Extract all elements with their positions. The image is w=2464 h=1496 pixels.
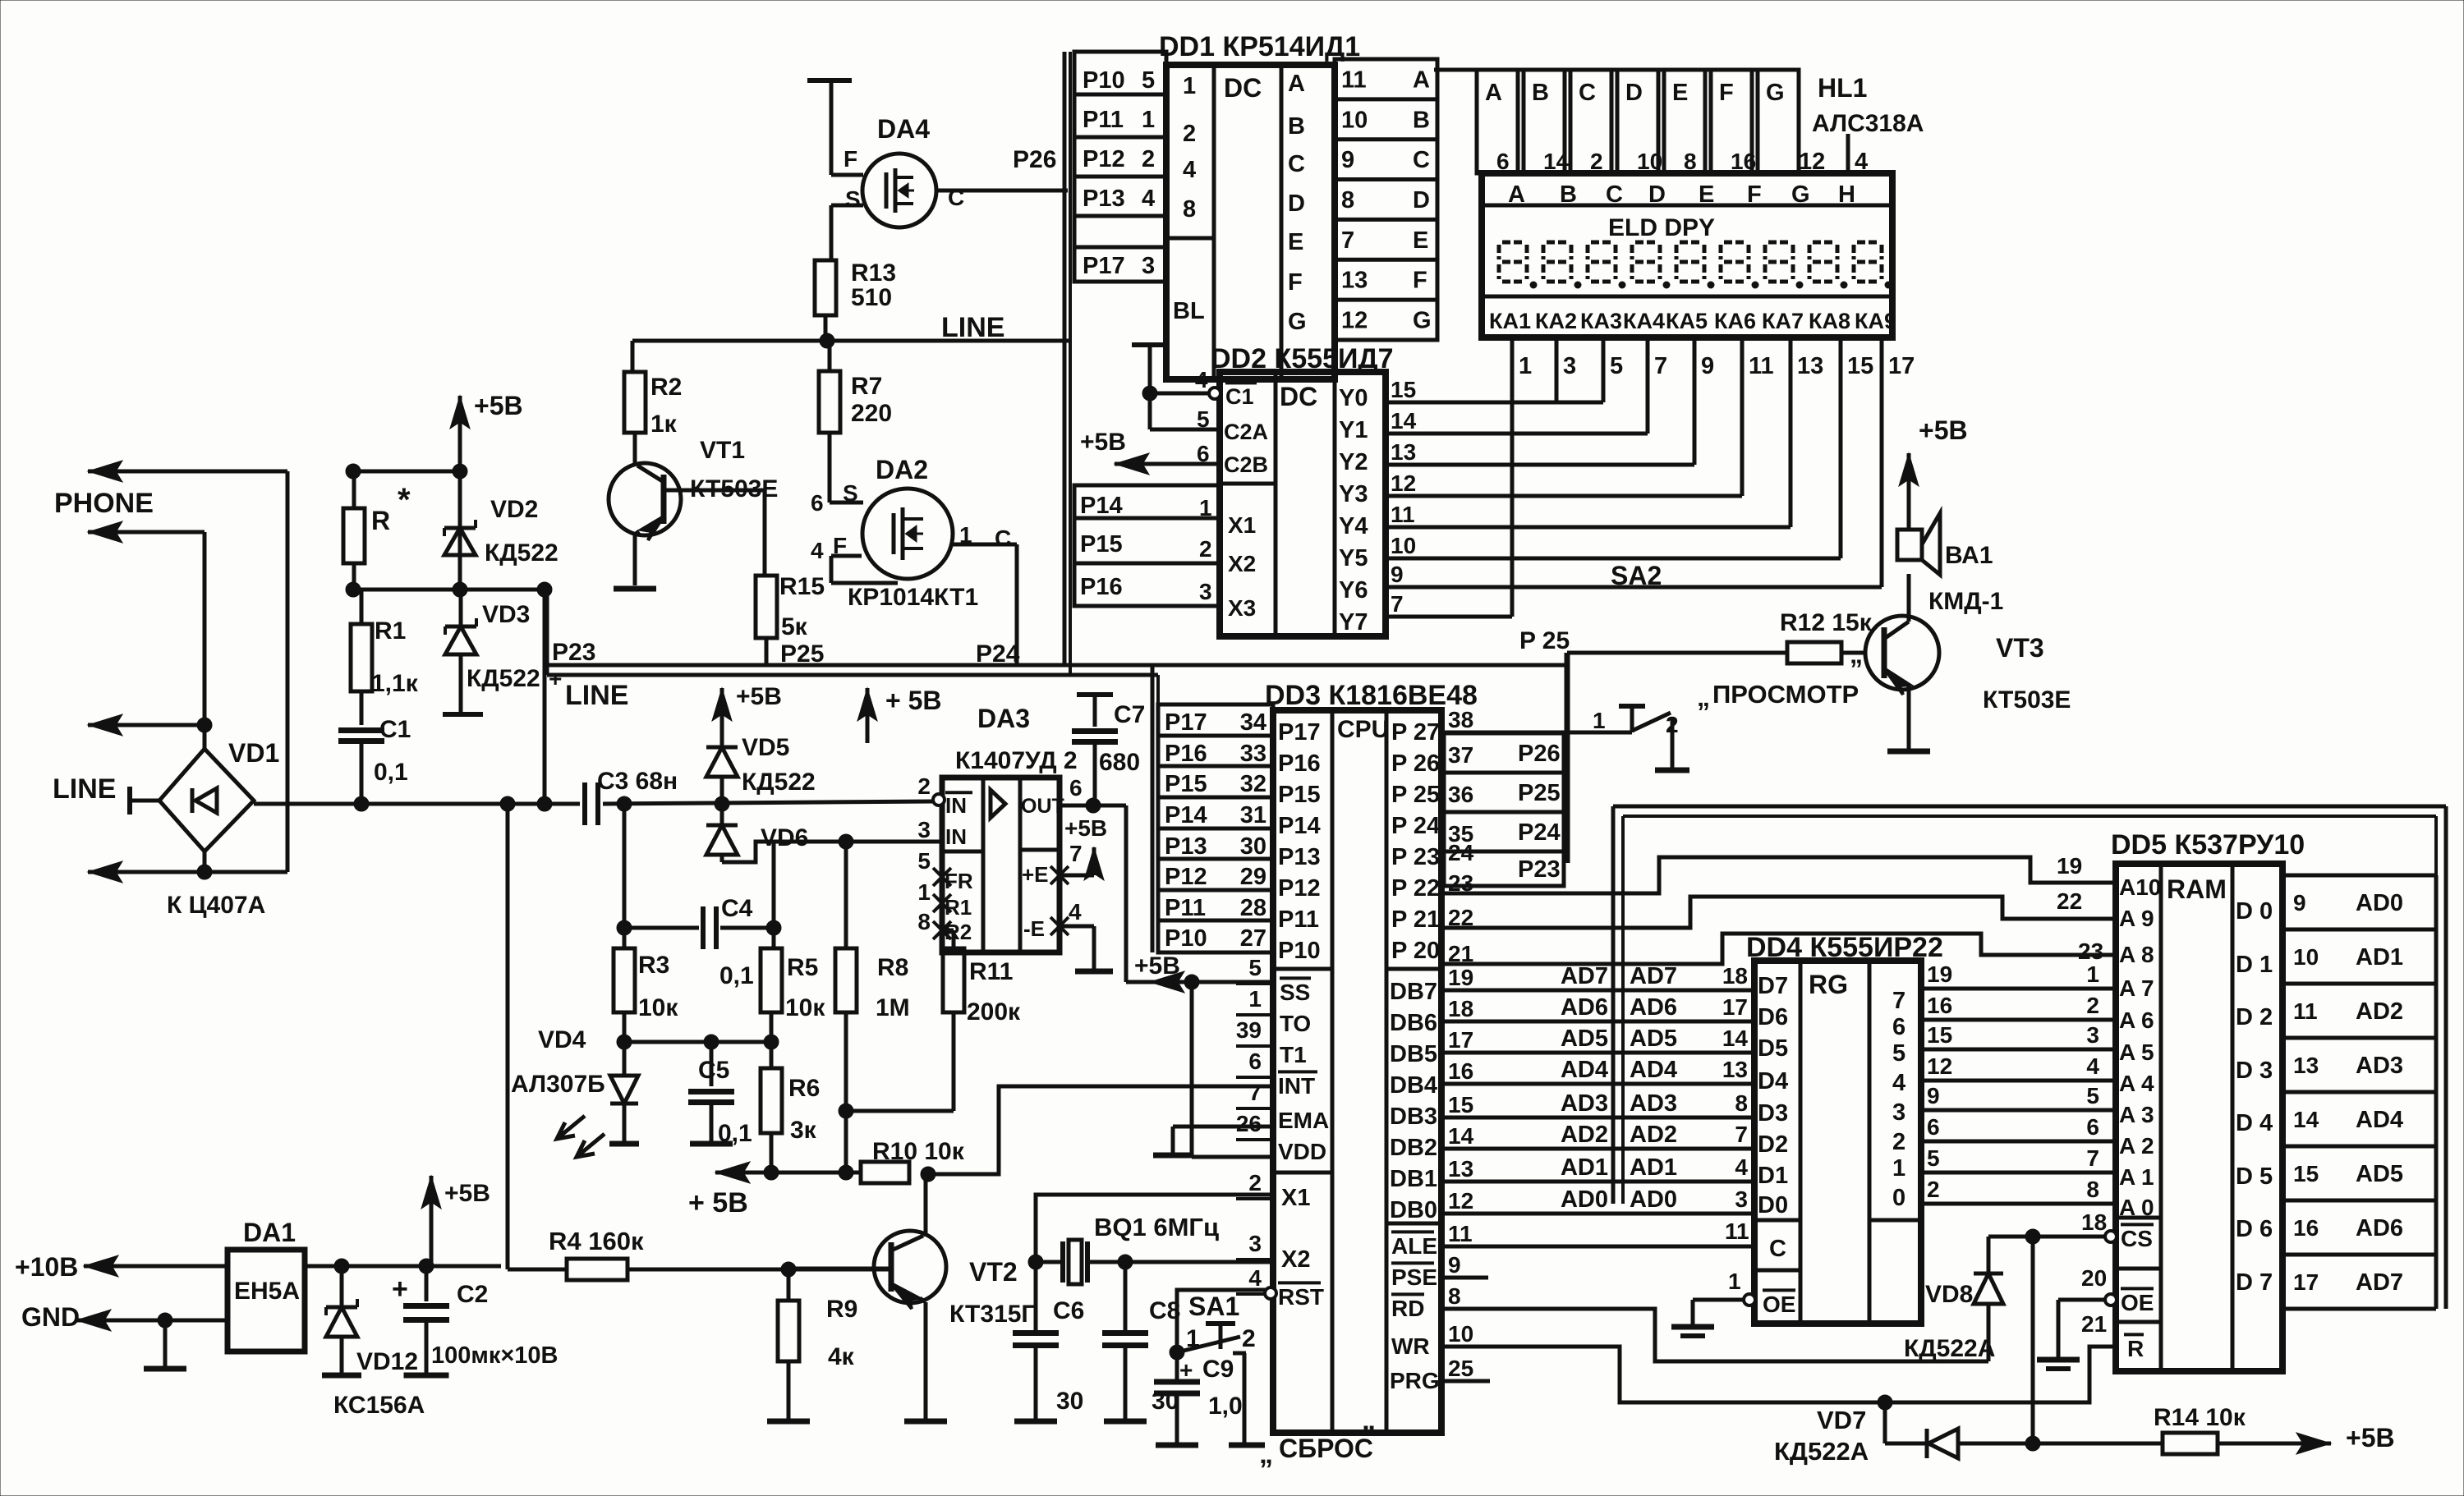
svg-text:+: +	[392, 1273, 408, 1305]
svg-text:1: 1	[1728, 1269, 1741, 1294]
svg-text:D4: D4	[1758, 1068, 1788, 1094]
svg-text:17: 17	[1448, 1027, 1473, 1053]
svg-text:PSE: PSE	[1391, 1264, 1437, 1290]
svg-text:0,1: 0,1	[718, 1120, 752, 1147]
svg-text:ВQ1 6МГц: ВQ1 6МГц	[1094, 1213, 1219, 1241]
svg-text:9: 9	[2293, 890, 2306, 915]
svg-text:1: 1	[917, 879, 931, 905]
svg-text:15: 15	[1448, 1092, 1473, 1117]
svg-text:D7: D7	[1758, 973, 1788, 999]
svg-text:33: 33	[1240, 741, 1266, 767]
svg-text:AD0: AD0	[1630, 1186, 1677, 1213]
svg-text:AD1: AD1	[2356, 944, 2403, 971]
svg-text:AD0: AD0	[1561, 1186, 1608, 1213]
svg-text:9: 9	[1701, 353, 1714, 379]
svg-text:AD5: AD5	[2356, 1161, 2403, 1187]
svg-text:AD6: AD6	[1561, 994, 1608, 1021]
svg-text:19: 19	[1448, 965, 1473, 990]
svg-text:D: D	[1288, 190, 1305, 217]
svg-text:„: „	[1697, 682, 1710, 712]
svg-text:DA2: DA2	[876, 455, 928, 484]
svg-text:AD4: AD4	[1561, 1057, 1608, 1083]
svg-text:AD5: AD5	[1630, 1026, 1677, 1052]
svg-text:A 2: A 2	[2119, 1133, 2154, 1159]
svg-text:H: H	[1838, 181, 1855, 208]
svg-text:10: 10	[2293, 944, 2319, 970]
svg-text:5: 5	[1610, 353, 1623, 379]
svg-text:P15: P15	[1165, 771, 1207, 797]
svg-text:R10 10к: R10 10к	[872, 1138, 965, 1165]
svg-text:3: 3	[1735, 1186, 1748, 1212]
svg-text:13: 13	[1391, 439, 1416, 465]
svg-text:RST: RST	[1278, 1284, 1324, 1310]
svg-text:R6: R6	[788, 1075, 820, 1102]
svg-text:P14: P14	[1080, 493, 1123, 519]
svg-text:КТ315Г: КТ315Г	[949, 1301, 1035, 1328]
svg-text:15: 15	[2293, 1161, 2319, 1186]
svg-text:3: 3	[1892, 1099, 1905, 1126]
svg-text:1: 1	[959, 522, 972, 548]
svg-text:11: 11	[1391, 502, 1415, 527]
svg-text:7: 7	[2086, 1145, 2099, 1171]
svg-text:DB6: DB6	[1390, 1010, 1437, 1036]
svg-text:ALE: ALE	[1391, 1233, 1437, 1259]
svg-text:КА7: КА7	[1762, 309, 1804, 333]
svg-text:КА9: КА9	[1855, 309, 1896, 333]
svg-text:23: 23	[2078, 938, 2103, 964]
svg-text:17: 17	[2293, 1269, 2319, 1295]
svg-text:АЛ307Б: АЛ307Б	[511, 1071, 605, 1098]
svg-text:Y0: Y0	[1339, 385, 1368, 411]
svg-text:P26: P26	[1013, 146, 1056, 173]
svg-text:7: 7	[1391, 591, 1404, 617]
svg-text:4: 4	[2086, 1053, 2099, 1079]
svg-text:4: 4	[1735, 1154, 1748, 1180]
svg-text:P11: P11	[1165, 895, 1206, 921]
svg-text:0: 0	[1892, 1185, 1905, 1211]
svg-text:F: F	[844, 146, 857, 172]
svg-text:17: 17	[1888, 353, 1915, 379]
svg-text:AD2: AD2	[1561, 1122, 1608, 1148]
svg-text:+ 5В: + 5В	[885, 686, 941, 715]
svg-text:+5В: +5В	[1134, 952, 1180, 980]
svg-text:18: 18	[1448, 996, 1473, 1021]
svg-text:SA2: SA2	[1611, 561, 1662, 590]
svg-text:P 25: P 25	[1519, 627, 1570, 654]
svg-text:С4: С4	[721, 895, 753, 922]
svg-text:14: 14	[1448, 1123, 1474, 1149]
svg-text:25: 25	[1448, 1356, 1473, 1381]
svg-text:5: 5	[1197, 406, 1210, 432]
svg-text:8: 8	[1183, 196, 1196, 223]
svg-text:R: R	[371, 506, 390, 535]
svg-text:3: 3	[2086, 1022, 2099, 1048]
svg-text:С6: С6	[1053, 1297, 1084, 1324]
svg-text:DB4: DB4	[1390, 1072, 1437, 1099]
svg-text:D 6: D 6	[2236, 1216, 2273, 1242]
svg-text:КР1014КТ1: КР1014КТ1	[848, 584, 978, 611]
svg-text:A 4: A 4	[2119, 1071, 2154, 1096]
svg-text:HL1: HL1	[1818, 73, 1867, 103]
svg-text:3к: 3к	[790, 1117, 817, 1144]
svg-text:15: 15	[1927, 1022, 1952, 1048]
svg-text:4: 4	[1248, 1265, 1262, 1291]
svg-text:E: E	[1413, 227, 1428, 254]
svg-text:К Ц407А: К Ц407А	[167, 892, 265, 919]
svg-text:11: 11	[1749, 353, 1774, 379]
svg-text:E: E	[1288, 229, 1303, 255]
svg-text:S: S	[843, 480, 858, 506]
svg-text:C: C	[1413, 147, 1430, 173]
svg-text:P 25: P 25	[1391, 782, 1440, 808]
svg-text:17: 17	[1722, 994, 1748, 1020]
svg-text:P17: P17	[1165, 709, 1207, 736]
svg-text:C: C	[1288, 151, 1305, 177]
svg-text:7: 7	[1069, 841, 1083, 866]
svg-text:VT2: VT2	[969, 1257, 1018, 1287]
svg-text:10к: 10к	[785, 994, 825, 1021]
svg-text:IN: IN	[945, 793, 967, 818]
svg-text:D: D	[1413, 187, 1430, 213]
svg-text:P 26: P 26	[1391, 750, 1440, 777]
svg-text:6: 6	[1197, 441, 1210, 466]
svg-text:P12: P12	[1083, 146, 1125, 172]
svg-text:P13: P13	[1083, 186, 1125, 212]
svg-text:19: 19	[1927, 961, 1952, 987]
svg-text:36: 36	[1448, 782, 1473, 807]
svg-text:AD2: AD2	[1630, 1122, 1677, 1148]
svg-text:3: 3	[1248, 1231, 1262, 1256]
svg-text:+: +	[549, 666, 562, 691]
svg-text:VD12: VD12	[356, 1348, 418, 1375]
svg-text:29: 29	[1240, 864, 1266, 890]
svg-text:1,1к: 1,1к	[371, 670, 419, 697]
svg-text:P24: P24	[976, 640, 1020, 668]
svg-text:10: 10	[1391, 533, 1416, 558]
svg-text:1: 1	[1186, 1325, 1200, 1352]
svg-text:2: 2	[1242, 1325, 1256, 1352]
svg-text:AD7: AD7	[1561, 963, 1608, 989]
svg-text:C: C	[1579, 80, 1596, 106]
svg-text:11: 11	[1725, 1218, 1749, 1244]
svg-text:D: D	[1648, 181, 1666, 208]
svg-text:-E: -E	[1023, 916, 1045, 941]
svg-text:A 0: A 0	[2119, 1195, 2154, 1220]
svg-text:D6: D6	[1758, 1004, 1788, 1030]
svg-text:D5: D5	[1758, 1035, 1788, 1062]
svg-text:R9: R9	[826, 1296, 857, 1323]
svg-text:4: 4	[1069, 899, 1082, 925]
svg-text:ТО: ТО	[1280, 1011, 1311, 1036]
svg-text:14: 14	[1391, 408, 1417, 434]
svg-text:A: A	[1508, 181, 1525, 208]
svg-text:3: 3	[1142, 253, 1155, 279]
svg-text:P11: P11	[1083, 107, 1124, 133]
svg-text:1: 1	[1593, 708, 1606, 733]
svg-text:Х2: Х2	[1228, 551, 1256, 576]
svg-text:”: ”	[1362, 1420, 1376, 1452]
svg-text:D0: D0	[1758, 1192, 1788, 1218]
svg-text:DB5: DB5	[1390, 1041, 1437, 1067]
svg-text:DA4: DA4	[877, 114, 930, 144]
svg-text:GND: GND	[21, 1302, 80, 1332]
svg-text:D 1: D 1	[2236, 952, 2273, 978]
svg-text:G: G	[1413, 308, 1432, 334]
svg-text:VD3: VD3	[482, 601, 530, 628]
svg-text:RG: RG	[1809, 970, 1848, 999]
svg-text:КА4: КА4	[1623, 309, 1665, 333]
svg-text:2: 2	[1183, 121, 1196, 147]
svg-text:AD1: AD1	[1561, 1154, 1608, 1181]
svg-text:28: 28	[1240, 895, 1266, 921]
svg-text:13: 13	[1448, 1156, 1473, 1182]
svg-text:15: 15	[1847, 353, 1873, 379]
svg-text:AD3: AD3	[1561, 1090, 1608, 1117]
svg-text:P14: P14	[1165, 802, 1207, 828]
svg-text:PRG: PRG	[1390, 1368, 1440, 1393]
svg-text:A 7: A 7	[2119, 975, 2154, 1001]
svg-text:31: 31	[1240, 802, 1266, 828]
svg-text:С2: С2	[457, 1281, 488, 1308]
svg-text:Y6: Y6	[1339, 577, 1368, 603]
svg-text:P26: P26	[1518, 741, 1561, 767]
svg-text:12: 12	[1391, 470, 1416, 496]
svg-text:2: 2	[1199, 536, 1212, 562]
svg-text:С2В: С2В	[1224, 452, 1268, 477]
svg-text:8: 8	[1341, 187, 1354, 213]
svg-text:A 9: A 9	[2119, 906, 2154, 931]
svg-text:СБРОС: СБРОС	[1279, 1434, 1373, 1463]
svg-text:B: B	[1560, 181, 1577, 208]
svg-text:8: 8	[917, 909, 931, 934]
svg-text:G: G	[1791, 181, 1810, 208]
svg-text:22: 22	[2057, 888, 2082, 914]
svg-text:DB2: DB2	[1390, 1135, 1437, 1161]
svg-text:18: 18	[2081, 1209, 2107, 1235]
svg-text:1: 1	[1183, 73, 1196, 99]
svg-text:P13: P13	[1165, 833, 1207, 860]
svg-text:F: F	[1413, 268, 1427, 294]
svg-text:7: 7	[1341, 227, 1354, 254]
svg-text:P17: P17	[1278, 719, 1321, 746]
svg-text:34: 34	[1240, 709, 1266, 736]
svg-text:AD3: AD3	[1630, 1090, 1677, 1117]
svg-text:16: 16	[1448, 1058, 1473, 1084]
svg-text:DD5 К537РУ10: DD5 К537РУ10	[2111, 829, 2305, 860]
svg-text:2: 2	[1927, 1177, 1940, 1202]
svg-text:P17: P17	[1083, 253, 1125, 279]
svg-text:6: 6	[1248, 1049, 1262, 1074]
svg-text:G: G	[1766, 80, 1785, 106]
svg-text:4: 4	[1142, 186, 1155, 212]
svg-text:AD6: AD6	[2356, 1215, 2403, 1241]
svg-text:P23: P23	[1518, 856, 1561, 883]
svg-text:220: 220	[851, 400, 892, 427]
svg-text:DB1: DB1	[1390, 1166, 1437, 1192]
svg-text:A 6: A 6	[2119, 1007, 2154, 1033]
svg-text:F: F	[1747, 181, 1762, 208]
svg-text:LINE: LINE	[941, 312, 1004, 343]
svg-text:LINE: LINE	[565, 680, 628, 711]
svg-text:15: 15	[1391, 377, 1416, 402]
svg-text:R11: R11	[969, 958, 1013, 985]
svg-text:P 24: P 24	[1391, 813, 1440, 839]
svg-text:200к: 200к	[967, 998, 1021, 1026]
svg-text:+5В: +5В	[2346, 1423, 2395, 1452]
svg-text:P13: P13	[1278, 844, 1321, 870]
svg-text:P25: P25	[780, 640, 824, 668]
svg-text:27: 27	[1240, 925, 1266, 952]
svg-text:9: 9	[1341, 147, 1354, 173]
svg-text:510: 510	[851, 284, 892, 311]
svg-text:P10: P10	[1083, 67, 1125, 94]
svg-text:AD2: AD2	[2356, 998, 2403, 1025]
svg-text:D 3: D 3	[2236, 1058, 2273, 1084]
svg-text:0,1: 0,1	[374, 759, 408, 786]
svg-text:CS: CS	[2121, 1226, 2153, 1251]
svg-text:КА8: КА8	[1809, 309, 1850, 333]
svg-text:P16: P16	[1278, 750, 1321, 777]
svg-text:5: 5	[917, 848, 931, 874]
svg-text:4к: 4к	[828, 1343, 855, 1370]
svg-text:A 8: A 8	[2119, 942, 2154, 967]
svg-text:10к: 10к	[638, 994, 678, 1021]
svg-text:10: 10	[1448, 1321, 1473, 1347]
svg-text:С7: С7	[1114, 701, 1145, 728]
svg-text:6: 6	[1892, 1014, 1905, 1040]
svg-text:С5: С5	[698, 1057, 729, 1084]
svg-text:10: 10	[1341, 107, 1368, 133]
svg-text:КА6: КА6	[1714, 309, 1756, 333]
svg-text:RAM: RAM	[2167, 874, 2227, 904]
svg-text:26: 26	[1236, 1111, 1262, 1136]
svg-text:PHONE: PHONE	[54, 488, 154, 519]
svg-text:5: 5	[2086, 1083, 2099, 1108]
svg-text:+5В: +5В	[736, 683, 782, 710]
svg-text:ВА1: ВА1	[1945, 542, 1993, 569]
svg-text:+5В: +5В	[1064, 815, 1107, 841]
svg-text:R7: R7	[851, 373, 882, 400]
svg-text:680: 680	[1099, 749, 1140, 776]
svg-text:AD4: AD4	[1630, 1057, 1677, 1083]
svg-text:0,1: 0,1	[719, 962, 754, 989]
svg-text:6: 6	[2086, 1114, 2099, 1140]
svg-text:DD3 К1816ВЕ48: DD3 К1816ВЕ48	[1265, 680, 1478, 711]
svg-text:VD8: VD8	[1925, 1281, 1973, 1308]
svg-text:D 2: D 2	[2236, 1004, 2273, 1030]
svg-text:VD4: VD4	[538, 1026, 586, 1053]
svg-text:Y1: Y1	[1339, 417, 1368, 443]
svg-text:CPU: CPU	[1337, 716, 1389, 743]
svg-text:D1: D1	[1758, 1163, 1788, 1189]
svg-text:A 3: A 3	[2119, 1102, 2154, 1127]
svg-text:12: 12	[1448, 1188, 1473, 1214]
svg-text:С: С	[995, 525, 1011, 551]
svg-text:КТ503Е: КТ503Е	[1983, 686, 2071, 714]
svg-text:DC: DC	[1280, 382, 1317, 411]
svg-text:INT: INT	[1278, 1073, 1315, 1099]
svg-text:С9: С9	[1202, 1356, 1234, 1383]
svg-text:30: 30	[1240, 833, 1266, 860]
svg-text:Y2: Y2	[1339, 449, 1368, 475]
svg-text:Y4: Y4	[1339, 513, 1368, 539]
svg-text:КМД-1: КМД-1	[1928, 588, 2003, 615]
svg-text:P25: P25	[1518, 780, 1561, 806]
svg-text:Y3: Y3	[1339, 481, 1368, 507]
svg-text:39: 39	[1236, 1017, 1262, 1043]
svg-text:VD1: VD1	[228, 738, 279, 768]
svg-text:9: 9	[1927, 1083, 1940, 1108]
svg-text:C: C	[1769, 1236, 1786, 1262]
svg-text:С3 68н: С3 68н	[597, 768, 678, 795]
svg-text:AD1: AD1	[1630, 1154, 1677, 1181]
svg-text:AD0: AD0	[2356, 890, 2403, 916]
svg-text:A: A	[1413, 67, 1430, 93]
svg-text:1: 1	[1248, 986, 1262, 1012]
svg-text:D 4: D 4	[2236, 1110, 2273, 1136]
svg-text:30: 30	[1056, 1388, 1083, 1415]
svg-text:F: F	[833, 533, 847, 558]
svg-text:SA1: SA1	[1188, 1292, 1239, 1321]
svg-text:D 7: D 7	[2236, 1269, 2273, 1296]
svg-text:+5В: +5В	[1080, 429, 1126, 456]
svg-text:5: 5	[1248, 955, 1262, 980]
svg-text:ПРОСМОТР: ПРОСМОТР	[1712, 680, 1859, 709]
svg-text:12: 12	[1341, 308, 1368, 334]
svg-text:R14 10к: R14 10к	[2154, 1404, 2246, 1431]
svg-text:9: 9	[1391, 562, 1404, 587]
svg-text:21: 21	[2081, 1311, 2107, 1337]
svg-text:АЛС318А: АЛС318А	[1812, 110, 1924, 137]
svg-text:ОЕ: ОЕ	[2121, 1290, 2154, 1315]
svg-text:3: 3	[917, 817, 931, 842]
svg-text:AD7: AD7	[2356, 1269, 2403, 1296]
svg-text:D: D	[1625, 80, 1643, 106]
svg-text:DA1: DA1	[243, 1218, 296, 1247]
svg-text:F: F	[1288, 269, 1303, 296]
svg-text:11: 11	[1341, 67, 1367, 93]
svg-text:20: 20	[2081, 1265, 2107, 1291]
svg-text:*: *	[398, 482, 411, 518]
svg-text:12: 12	[1927, 1053, 1952, 1079]
svg-text:1: 1	[2086, 961, 2099, 987]
svg-text:4: 4	[1892, 1070, 1905, 1096]
svg-text:КА2: КА2	[1535, 309, 1577, 333]
svg-text:B: B	[1532, 80, 1549, 106]
svg-text:1: 1	[1519, 353, 1532, 379]
svg-text:1к: 1к	[650, 411, 678, 438]
svg-text:A: A	[1288, 71, 1305, 97]
svg-text:1: 1	[1199, 495, 1212, 521]
svg-text:32: 32	[1240, 771, 1266, 797]
svg-text:16: 16	[1927, 993, 1952, 1018]
svg-text:DB3: DB3	[1390, 1104, 1437, 1130]
svg-text:7: 7	[1248, 1080, 1262, 1105]
svg-text:9: 9	[1448, 1252, 1461, 1278]
svg-text:AD6: AD6	[1630, 994, 1677, 1021]
svg-text:D3: D3	[1758, 1100, 1788, 1127]
svg-text:AD7: AD7	[1630, 963, 1677, 989]
svg-text:R1: R1	[375, 617, 406, 645]
svg-text:+5В: +5В	[474, 391, 523, 420]
svg-text:R12 15к: R12 15к	[1780, 609, 1873, 636]
svg-text:19: 19	[2057, 853, 2082, 879]
svg-text:С1: С1	[1225, 384, 1254, 409]
svg-text:14: 14	[1722, 1026, 1749, 1051]
svg-text:P14: P14	[1278, 813, 1321, 839]
svg-text:F: F	[1719, 80, 1734, 106]
svg-text:18: 18	[1722, 963, 1748, 989]
